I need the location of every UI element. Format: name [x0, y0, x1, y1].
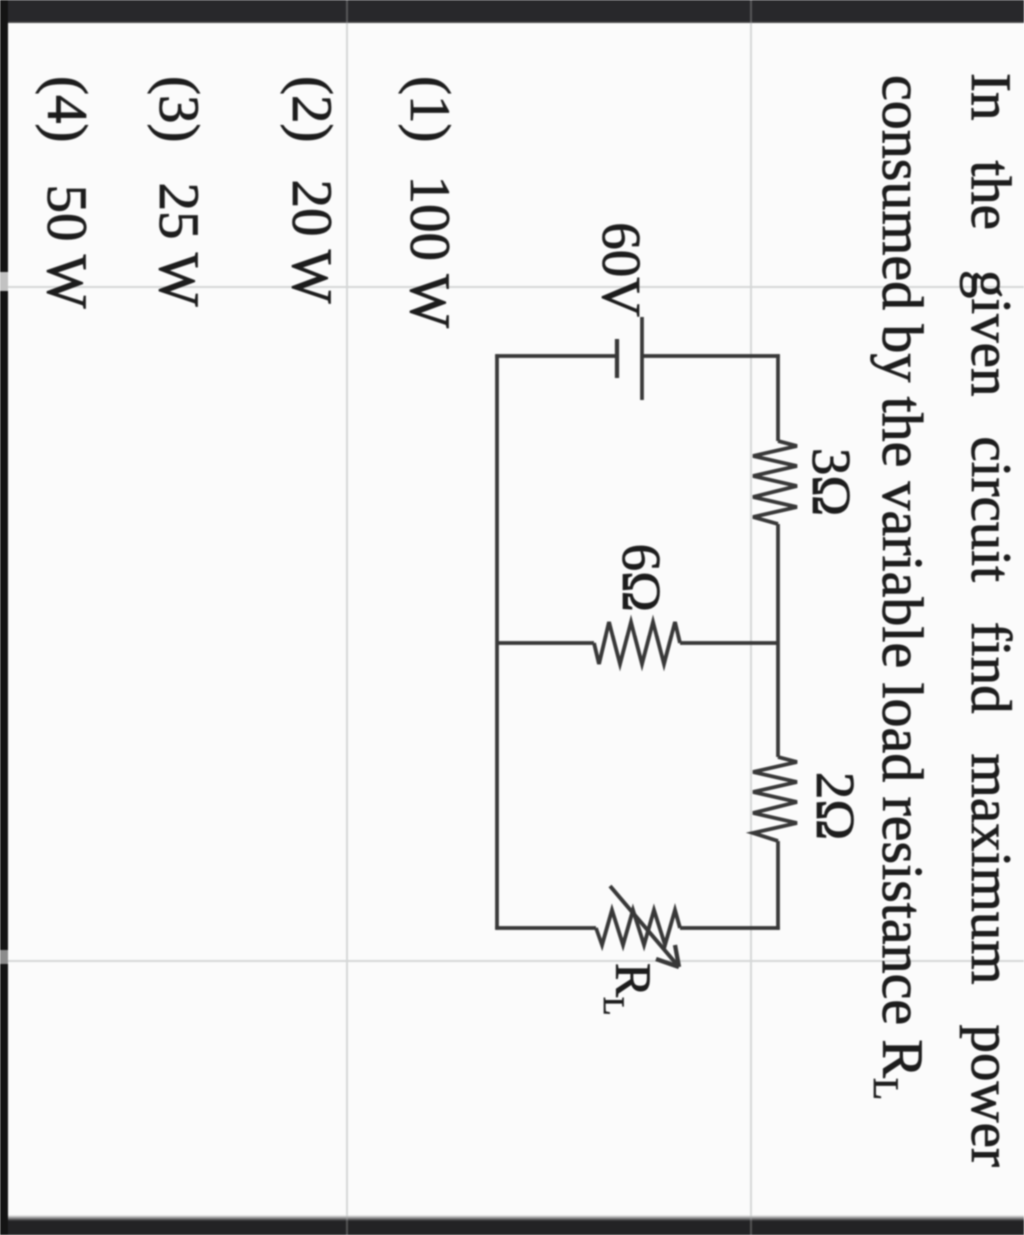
- faint grid crossing on left strip 1: [750, 0, 752, 23]
- faint grid crossing on left strip 2: [346, 0, 348, 23]
- wire right edge above RL: [680, 926, 780, 930]
- notch on bottom strip at grid crossing 1: [0, 272, 8, 291]
- notch on bottom strip at grid crossing 2: [0, 950, 8, 964]
- option 4: [38, 76, 95, 309]
- wire left edge above battery: [642, 354, 780, 358]
- faint grid crossing on right strip 1: [750, 1215, 752, 1235]
- variable resistor RL zigzag: [596, 910, 680, 945]
- battery B1 long plate: [640, 317, 644, 400]
- grid line horizontal lower: [346, 0, 348, 1235]
- wire middle vertical upper: [680, 641, 778, 645]
- resistor 3ohm zigzag: [753, 441, 797, 524]
- wire top edge segment 3: [776, 841, 780, 930]
- wire top edge segment 2: [776, 524, 780, 757]
- svg-text:6Ω: 6Ω: [611, 544, 672, 612]
- wire bottom edge: [495, 354, 499, 929]
- svg-text:2Ω: 2Ω: [805, 772, 866, 840]
- question line 2: [867, 75, 931, 1100]
- wire middle vertical lower: [497, 641, 594, 645]
- dark strip left (top of scan): [0, 0, 1024, 23]
- svg-text:L: L: [597, 997, 630, 1015]
- option 1: [401, 76, 458, 328]
- dark strip right (bottom of scan): [0, 1215, 1024, 1235]
- grid line vertical left: [0, 286, 1024, 288]
- wire right edge below RL: [495, 926, 596, 930]
- grid line horizontal upper: [750, 0, 752, 1235]
- option 2: [283, 76, 340, 304]
- grid line vertical right: [0, 960, 1024, 962]
- RL arrow: [610, 886, 679, 967]
- svg-text:60V: 60V: [591, 222, 652, 317]
- wire left edge below battery: [495, 354, 617, 358]
- svg-text:3Ω: 3Ω: [801, 448, 862, 516]
- battery B1 short plate: [615, 339, 619, 378]
- dark strip bottom (left of scan): [0, 0, 8, 1235]
- question line 1: [962, 73, 1019, 1167]
- resistor 6ohm zigzag: [594, 622, 680, 664]
- faint grid crossing on right strip 2: [346, 1215, 348, 1235]
- option 3: [150, 76, 207, 307]
- svg-text:R: R: [604, 963, 660, 997]
- wire top edge segment 1: [776, 354, 780, 441]
- resistor 2ohm zigzag: [753, 757, 797, 841]
